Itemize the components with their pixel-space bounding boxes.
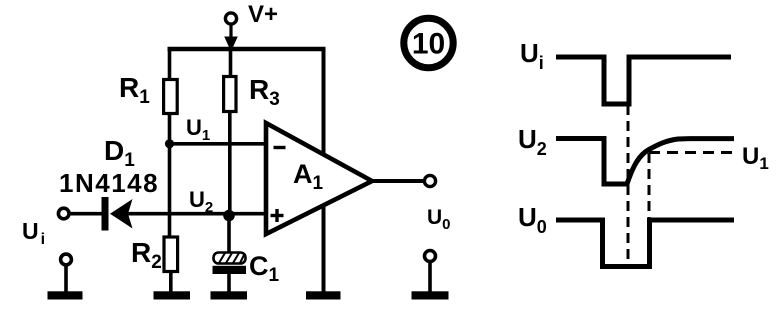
- label 1N4148: [59, 168, 159, 198]
- waveform U0 trace: [556, 220, 734, 267]
- resistor R3: [224, 77, 236, 112]
- resistor R1: [164, 80, 178, 114]
- node U2: [223, 210, 235, 222]
- wire diode anode to node U2 and op-amp non-inverting input: [124, 212, 267, 216]
- figure number 10: [404, 18, 453, 67]
- terminal output: [424, 175, 435, 186]
- wire op-amp output: [372, 179, 425, 183]
- wire node U1 down to R2: [168, 144, 172, 239]
- ground below C1: [211, 291, 248, 299]
- wire C1 to ground: [227, 273, 231, 292]
- ground below R2: [154, 291, 191, 299]
- label V+: [248, 1, 278, 28]
- waveform Ui trace: [556, 57, 731, 104]
- terminal input Ui: [58, 208, 69, 219]
- op-amp A1: [266, 123, 372, 234]
- wire node U2 down to C1: [227, 216, 231, 255]
- label R1: [119, 72, 150, 108]
- resistor R2: [164, 237, 178, 272]
- svg-text:10: 10: [412, 28, 445, 61]
- ground below output terminal: [412, 291, 449, 299]
- label A1: [293, 159, 324, 194]
- wire rail to R3: [229, 49, 233, 79]
- node U1: [165, 139, 174, 148]
- dashed threshold level U1: [649, 151, 737, 154]
- label U1 threshold level: [742, 143, 769, 173]
- svg-text:1N4148: 1N4148: [59, 168, 159, 198]
- wire input to diode: [69, 212, 103, 216]
- label U0 output: [427, 206, 451, 233]
- wire rail to R1: [168, 47, 172, 81]
- label D1: [104, 135, 135, 171]
- label C1: [249, 251, 280, 286]
- label Ui input: [22, 218, 45, 248]
- diode D1 (1N4148), cathode bar: [102, 197, 133, 231]
- label U1: [186, 115, 210, 144]
- ground below op-amp: [306, 291, 341, 299]
- svg-text:V+: V+: [248, 1, 278, 28]
- wire R1 to node U1: [168, 113, 172, 145]
- wire R2 to ground: [169, 271, 173, 292]
- waveform U2 trace with exponential recovery: [556, 139, 734, 185]
- terminal below input: [61, 254, 72, 292]
- terminal below output: [425, 251, 436, 293]
- dashed guide line at U2 threshold crossing: [648, 153, 651, 218]
- label R3: [249, 74, 280, 110]
- label U2 waveform: [518, 124, 547, 159]
- label U0 waveform: [518, 202, 547, 237]
- ground below input terminal: [48, 291, 83, 299]
- capacitor C1 (electrolytic, hatched positive plate): [213, 253, 247, 275]
- wire op-amp supply vertical to ground: [322, 47, 326, 293]
- dashed guide line at Ui pulse end: [627, 105, 630, 266]
- label U2: [189, 187, 213, 216]
- label Ui waveform: [520, 38, 544, 73]
- supply rail V+ top wire: [168, 47, 326, 51]
- terminal V+: [224, 13, 238, 52]
- wire node U1 to op-amp inverting input: [170, 142, 268, 146]
- label R2: [131, 237, 162, 273]
- wire R3 to node U2: [228, 111, 232, 217]
